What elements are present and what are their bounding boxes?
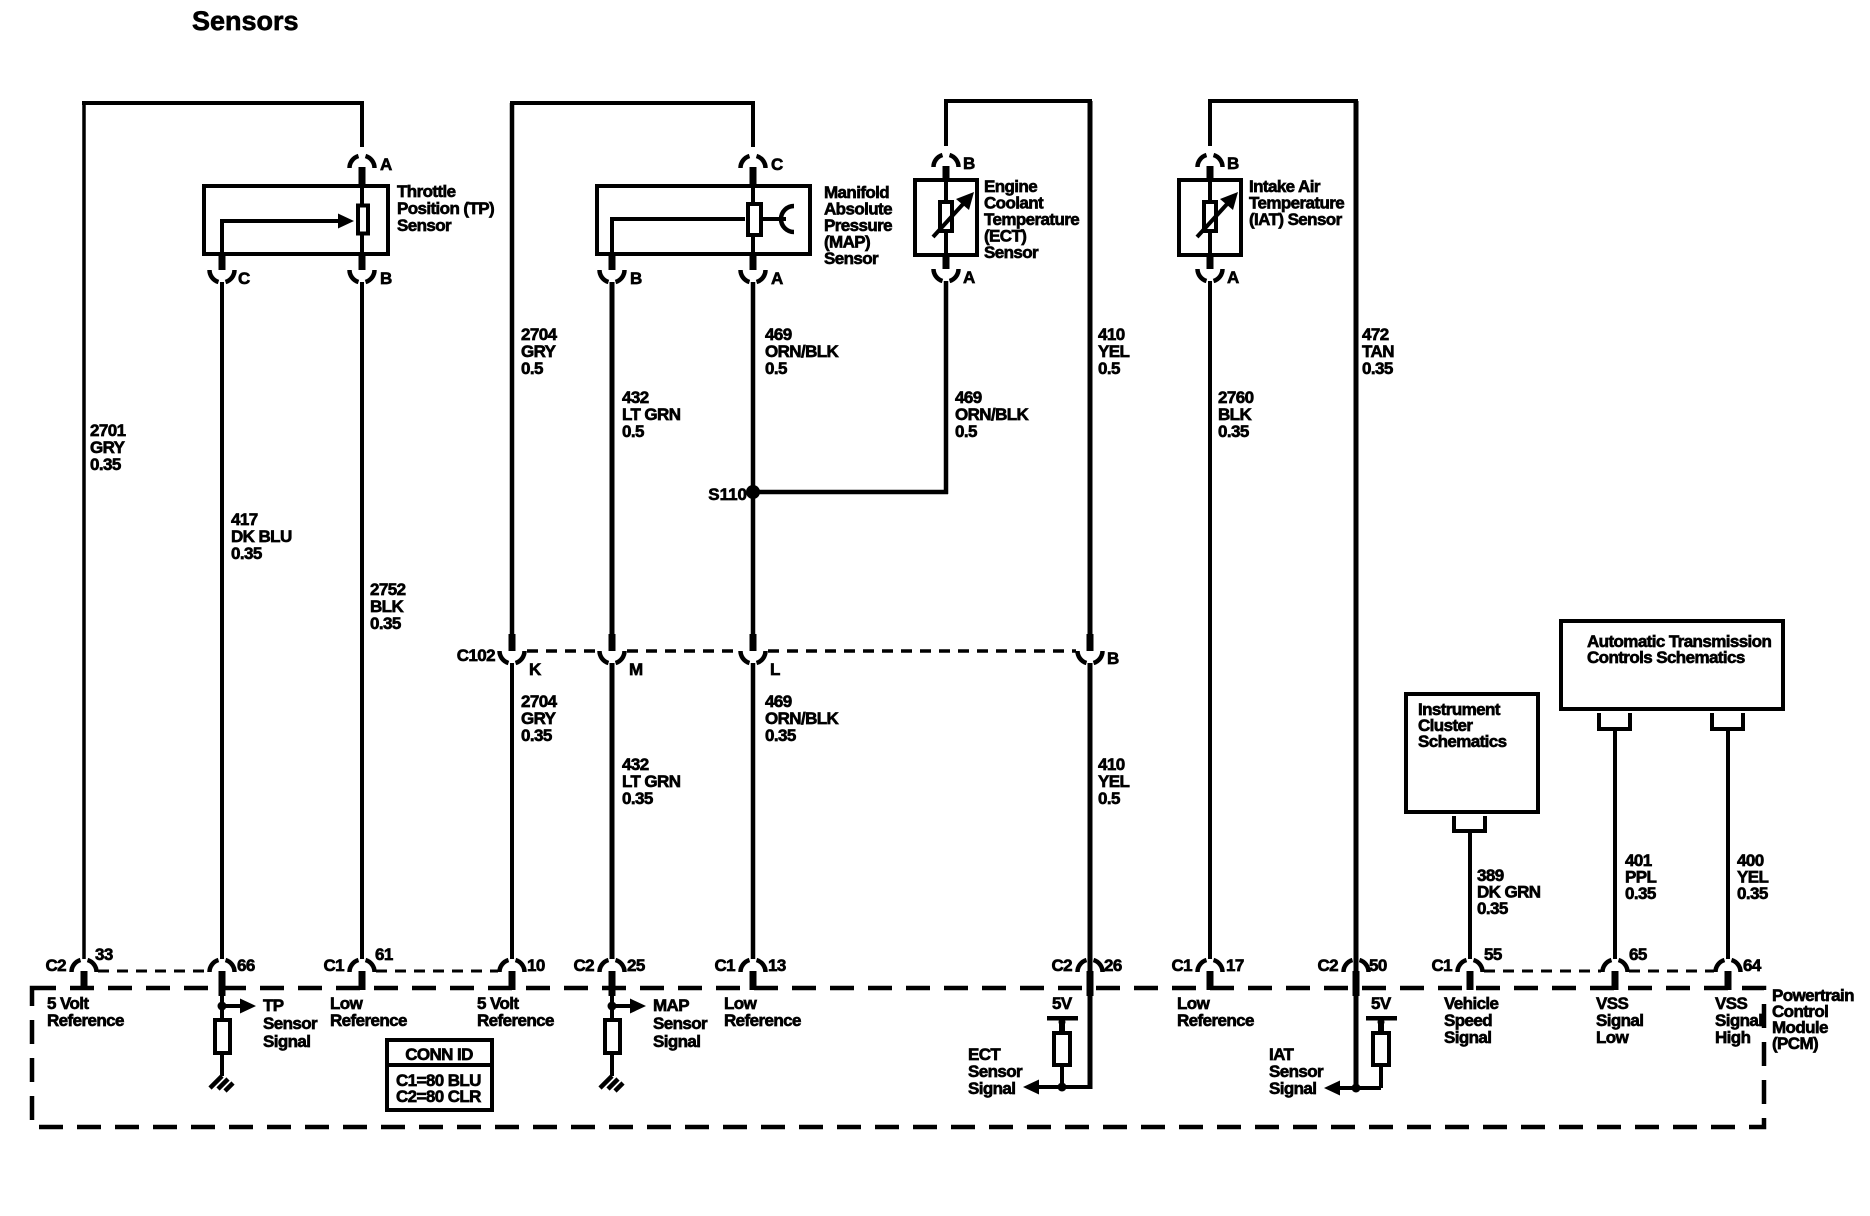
splice S110: [708, 485, 760, 504]
svg-text:Controls Schematics: Controls Schematics: [1587, 648, 1745, 667]
svg-text:C2: C2: [1317, 956, 1338, 975]
svg-text:0.5: 0.5: [765, 359, 787, 378]
svg-text:0.35: 0.35: [521, 726, 552, 745]
connector PCM C2 pin 33: [45, 945, 112, 990]
svg-text:0.5: 0.5: [1098, 789, 1120, 808]
svg-text:B: B: [963, 154, 975, 173]
connector PCM C2 pin 50: [1317, 956, 1386, 996]
resistor IAT pull-up: [1373, 1033, 1389, 1065]
IAT sensor box: [1179, 180, 1241, 255]
connector C102 pin B: [1078, 634, 1120, 668]
svg-text:MAP: MAP: [653, 996, 689, 1015]
wire 469 ORN/BLK upper: [751, 282, 756, 635]
ECT sensor box: [915, 180, 977, 255]
connector MAP pin C: [741, 155, 784, 186]
connector PCM C1 pin 13: [714, 956, 785, 990]
wire MAP resistor to ground: [610, 1053, 614, 1076]
label 5V (ECT): [1052, 994, 1073, 1013]
wire ECT resistor down: [1060, 1065, 1064, 1087]
wire ECT pin B drop: [944, 99, 948, 146]
svg-text:5V: 5V: [1371, 994, 1392, 1013]
label 2704 GRY 0.5: [521, 325, 558, 378]
IC bracket connector: [1454, 816, 1485, 831]
connector IAT pin A: [1198, 256, 1240, 287]
wire ECT signal horizontal: [1038, 990, 1090, 1089]
svg-text:C: C: [238, 269, 250, 288]
svg-text:0.35: 0.35: [1362, 359, 1393, 378]
connector TP pin B: [350, 254, 393, 288]
svg-text:CONN ID: CONN ID: [405, 1045, 473, 1064]
svg-text:50: 50: [1369, 956, 1387, 975]
svg-text:C1: C1: [1431, 956, 1452, 975]
label Throttle Position (TP) Sensor: [397, 182, 494, 235]
svg-text:Reference: Reference: [477, 1011, 554, 1030]
ground TP: [210, 1076, 233, 1091]
svg-text:Schematics: Schematics: [1418, 732, 1507, 751]
svg-text:0.5: 0.5: [521, 359, 543, 378]
thin dashed 65-64: [1629, 970, 1714, 973]
svg-text:0.35: 0.35: [1625, 884, 1656, 903]
connector PCM C1 pin 61: [323, 945, 392, 990]
svg-text:Sensors: Sensors: [192, 6, 299, 36]
label 400 YEL 0.35: [1737, 851, 1768, 903]
label 5 Volt Reference (MAP): [477, 994, 554, 1030]
TP signal arrow: [222, 999, 256, 1014]
svg-text:64: 64: [1743, 956, 1762, 975]
svg-text:0.35: 0.35: [231, 544, 262, 563]
connector PCM C2 pin 25: [573, 956, 644, 996]
PCM dashed border: [32, 988, 1764, 1127]
label 469 ORN/BLK 0.5 ECT: [955, 388, 1030, 441]
svg-text:L: L: [770, 660, 780, 679]
label 2752 BLK 0.35: [370, 580, 406, 633]
CONN ID table: [387, 1040, 492, 1110]
svg-text:Signal: Signal: [653, 1032, 700, 1051]
wire IAT resistor down: [1379, 1065, 1383, 1088]
wire 400 YEL: [1726, 731, 1730, 959]
title Sensors: [192, 6, 299, 36]
connector ECT pin A: [934, 256, 976, 287]
connector PCM pin 64: [1716, 956, 1762, 990]
svg-text:0.35: 0.35: [1218, 422, 1249, 441]
wire IAT signal horizontal: [1340, 990, 1381, 1088]
svg-text:0.35: 0.35: [90, 455, 121, 474]
label Intake Air Temperature (IAT) Sensor: [1249, 177, 1344, 229]
label 410 YEL 0.5 upper: [1098, 325, 1129, 378]
wire 389 DK GRN: [1468, 833, 1472, 959]
label ECT Sensor Signal: [968, 1045, 1023, 1098]
wire IAT loop top: [1208, 99, 1358, 103]
node MAP signal junction: [608, 990, 617, 1021]
wire 401 PPL: [1613, 731, 1617, 959]
svg-text:0.35: 0.35: [622, 789, 653, 808]
node ECT signal junction: [1058, 1083, 1067, 1092]
svg-text:10: 10: [527, 956, 545, 975]
svg-text:25: 25: [627, 956, 645, 975]
label 2704 GRY 0.35: [521, 692, 558, 745]
svg-text:A: A: [963, 268, 975, 287]
svg-text:C1: C1: [323, 956, 344, 975]
wire 469 ORN/BLK lower: [751, 663, 756, 959]
svg-text:0.5: 0.5: [622, 422, 644, 441]
wire TP loop top: [82, 101, 364, 105]
svg-text:17: 17: [1226, 956, 1244, 975]
connector TP pin A: [350, 155, 393, 186]
resistor ECT pull-up: [1054, 1033, 1070, 1065]
svg-text:0.35: 0.35: [1737, 884, 1768, 903]
label Low Reference (IAT): [1177, 994, 1254, 1030]
connector C102 pin K: [500, 634, 543, 679]
label 432 LT GRN 0.5: [622, 388, 681, 441]
connector ECT pin B: [934, 154, 976, 180]
label Low Reference (MAP): [724, 994, 801, 1030]
connector MAP pin A: [741, 254, 784, 288]
connector IAT pin B: [1198, 154, 1240, 180]
svg-text:65: 65: [1629, 945, 1647, 964]
svg-text:13: 13: [768, 956, 786, 975]
ground MAP: [600, 1076, 623, 1091]
wire 2704 GRY (MAP 5V ref loop left): [510, 103, 515, 635]
svg-text:A: A: [1227, 268, 1239, 287]
wire ECT loop top: [944, 99, 1092, 103]
svg-text:B: B: [630, 269, 642, 288]
connector PCM pin 10: [500, 956, 545, 990]
label VSS Signal High: [1715, 994, 1762, 1047]
label IAT Sensor Signal: [1269, 1045, 1324, 1098]
thermistor IAT: [1197, 182, 1238, 255]
wire 469 ORN/BLK ECT vertical: [944, 281, 949, 494]
wire 432 LT GRN upper: [610, 282, 615, 635]
svg-text:Reference: Reference: [47, 1011, 124, 1030]
svg-text:26: 26: [1104, 956, 1122, 975]
connector PCM C1 pin 17: [1171, 956, 1243, 990]
5V supply IAT: [1366, 1016, 1397, 1033]
svg-text:M: M: [629, 660, 643, 679]
svg-text:S110: S110: [708, 485, 747, 504]
label 469 ORN/BLK 0.5: [765, 325, 840, 378]
svg-text:5V: 5V: [1052, 994, 1073, 1013]
connector PCM pin 65: [1603, 945, 1647, 990]
svg-text:C: C: [771, 155, 783, 174]
node TP signal junction: [218, 990, 227, 1021]
C102 dashed line: [527, 649, 1076, 653]
svg-text:0.35: 0.35: [1477, 899, 1508, 918]
MAP signal arrow: [612, 999, 646, 1014]
connector TP pin C: [210, 254, 251, 288]
label 469 ORN/BLK 0.35: [765, 692, 840, 745]
label MAP Sensor Signal: [653, 996, 708, 1051]
label Engine Coolant Temperature (ECT) Sensor: [984, 177, 1079, 262]
resistor MAP: [748, 187, 761, 253]
label 389 DK GRN 0.35: [1477, 866, 1541, 918]
svg-text:Reference: Reference: [724, 1011, 801, 1030]
svg-text:C2: C2: [573, 956, 594, 975]
node IAT signal junction: [1352, 1084, 1361, 1093]
ATC bracket connector 1: [1599, 713, 1630, 729]
svg-text:33: 33: [95, 945, 113, 964]
thin dashed 61-10: [376, 970, 498, 973]
svg-text:C1: C1: [1171, 956, 1192, 975]
label 401 PPL 0.35: [1625, 851, 1656, 903]
IAT signal arrow: [1324, 1081, 1340, 1096]
svg-text:66: 66: [237, 956, 255, 975]
wire MAP pin C drop: [751, 101, 755, 147]
connector PCM C2 pin 26: [1051, 956, 1121, 996]
label Low Reference (TP): [330, 994, 407, 1030]
label VSS Signal Low: [1596, 994, 1643, 1047]
svg-text:0.5: 0.5: [955, 422, 977, 441]
connector PCM C1 pin 55: [1431, 945, 1501, 990]
wire 2752 BLK: [360, 282, 364, 959]
svg-text:55: 55: [1484, 945, 1502, 964]
wire IAT pin B drop: [1208, 99, 1212, 146]
svg-text:Sensor: Sensor: [653, 1014, 708, 1033]
svg-text:C2=80 CLR: C2=80 CLR: [396, 1087, 481, 1106]
svg-text:0.35: 0.35: [765, 726, 796, 745]
label 417 DK BLU 0.35: [231, 510, 292, 563]
label 472 TAN 0.35: [1362, 325, 1394, 378]
5V supply ECT: [1047, 1016, 1078, 1033]
MAP pressure port symbol: [761, 206, 794, 232]
svg-text:A: A: [380, 155, 392, 174]
svg-text:B: B: [1107, 649, 1119, 668]
wire 2701 GRY (TP 5V ref loop left): [82, 103, 86, 959]
label C102: [457, 646, 495, 665]
svg-text:B: B: [380, 269, 392, 288]
label 432 LT GRN 0.35: [622, 755, 681, 808]
svg-text:0.35: 0.35: [370, 614, 401, 633]
wire 432 LT GRN lower: [610, 663, 615, 959]
svg-text:TP: TP: [263, 996, 284, 1015]
wire ECT to S110 horizontal: [751, 490, 948, 495]
svg-text:0.5: 0.5: [1098, 359, 1120, 378]
wire 410 YEL lower: [1088, 663, 1093, 990]
svg-text:Signal: Signal: [1269, 1079, 1316, 1098]
Instrument Cluster Schematics box: [1406, 694, 1538, 812]
TP sensor box: [204, 186, 388, 254]
connector C102 pin M: [600, 634, 644, 679]
wire MAP loop top: [510, 101, 755, 105]
label Manifold Absolute Pressure (MAP) Sensor: [824, 183, 892, 268]
wire 2760 BLK: [1208, 281, 1212, 959]
svg-text:B: B: [1227, 154, 1239, 173]
label Powertrain Control Module (PCM): [1772, 986, 1854, 1053]
svg-text:C102: C102: [457, 646, 495, 665]
wire 2704 GRY lower: [510, 663, 514, 959]
label 5 Volt Reference (TP): [47, 994, 124, 1030]
svg-text:C2: C2: [45, 956, 66, 975]
label 5V (IAT): [1371, 994, 1392, 1013]
svg-text:A: A: [771, 269, 783, 288]
svg-text:Sensor: Sensor: [824, 249, 879, 268]
label 2701 GRY 0.35: [90, 421, 126, 474]
Automatic Transmission Controls Schematics box: [1561, 621, 1783, 709]
thermistor ECT: [933, 182, 974, 255]
resistor TP pull-down: [215, 1020, 230, 1053]
label Vehicle Speed Signal: [1444, 994, 1499, 1047]
svg-text:High: High: [1715, 1028, 1751, 1047]
label 2760 BLK 0.35: [1218, 388, 1254, 441]
svg-text:Reference: Reference: [330, 1011, 407, 1030]
svg-text:(IAT) Sensor: (IAT) Sensor: [1249, 210, 1343, 229]
ATC bracket connector 2: [1712, 713, 1743, 729]
thin dashed 33-66: [98, 970, 208, 973]
svg-text:Sensor: Sensor: [397, 216, 452, 235]
thin dashed 55-65: [1484, 970, 1601, 973]
svg-text:C2: C2: [1051, 956, 1072, 975]
label TP Sensor Signal: [263, 996, 318, 1051]
resistor MAP pull-down: [605, 1020, 620, 1053]
svg-text:Reference: Reference: [1177, 1011, 1254, 1030]
MAP internal wire pin B: [612, 217, 745, 254]
ECT signal arrow: [1023, 1080, 1039, 1095]
connector MAP pin B: [600, 254, 643, 288]
svg-text:Signal: Signal: [1444, 1028, 1491, 1047]
potentiometer TP: [358, 187, 368, 253]
wire 410 YEL (ECT loop right): [1088, 101, 1093, 635]
svg-text:C1: C1: [714, 956, 735, 975]
svg-text:Low: Low: [1596, 1028, 1630, 1047]
connector C102 pin L: [741, 634, 781, 679]
wire 417 DK BLU: [220, 282, 224, 959]
wire 472 TAN (IAT loop right): [1354, 101, 1359, 990]
svg-text:Signal: Signal: [263, 1032, 310, 1051]
connector PCM pin 66: [210, 956, 255, 996]
wire TP resistor to ground: [220, 1053, 224, 1076]
wire TP pin A drop: [360, 101, 364, 147]
MAP sensor box: [597, 186, 810, 254]
svg-text:Sensor: Sensor: [263, 1014, 318, 1033]
svg-text:Signal: Signal: [968, 1079, 1015, 1098]
svg-text:K: K: [529, 660, 542, 679]
svg-text:61: 61: [375, 945, 393, 964]
svg-text:Sensor: Sensor: [984, 243, 1039, 262]
svg-text:(PCM): (PCM): [1772, 1034, 1818, 1053]
label 410 YEL 0.5 lower: [1098, 755, 1129, 808]
TP wiper arrow: [222, 214, 354, 255]
